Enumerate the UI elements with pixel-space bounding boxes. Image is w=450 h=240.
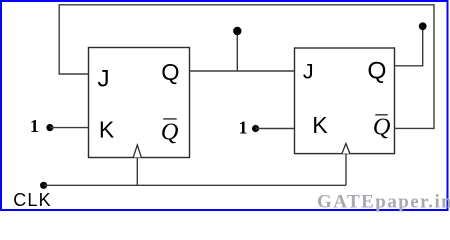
wire: 1 to K (U2) (256, 128, 295, 130)
overbar of Qbar (U2) (375, 114, 387, 116)
svg-text:K: K (99, 117, 115, 143)
wire: CLK bus (44, 184, 346, 186)
svg-text:K: K (312, 112, 328, 138)
wire: Q(U1) to J(U2) (190, 70, 295, 72)
wire: CLK bus to clock pin (U1) (136, 158, 138, 186)
clock edge triangle (U1) (133, 145, 141, 157)
input dot K (U1) (46, 124, 53, 131)
junction dot on Q1-J2 stub (233, 27, 241, 35)
CLK node dot (40, 182, 47, 189)
svg-text:J: J (303, 60, 314, 84)
JK flip-flop U2 (box) (295, 48, 395, 154)
wire: CLK bus to clock pin (U2) (345, 154, 347, 186)
JK flip-flop U1 (box) (89, 48, 190, 158)
input dot K (U2) (252, 125, 259, 132)
wire: stub from node dot down to Q1-J2 wire (236, 33, 238, 71)
svg-text:Q: Q (373, 113, 391, 140)
svg-text:Q: Q (161, 118, 179, 145)
junction dot on Q2 stub (419, 22, 427, 30)
overbar of Qbar (U1) (163, 118, 177, 120)
wire: feedback Qbar(U2) to J(U1) via top (59, 5, 434, 129)
svg-text:1: 1 (30, 116, 39, 136)
svg-text:CLK: CLK (13, 190, 52, 210)
wire: 1 to K (U1) (50, 127, 89, 129)
svg-text:1: 1 (239, 118, 248, 138)
svg-text:Q: Q (161, 59, 179, 85)
svg-text:GATEpaper.in: GATEpaper.in (317, 192, 450, 213)
clock edge triangle (U2) (342, 144, 350, 154)
wire: Q(U2) up to node dot (395, 29, 423, 66)
svg-text:J: J (97, 66, 109, 93)
svg-text:Q: Q (367, 58, 386, 85)
